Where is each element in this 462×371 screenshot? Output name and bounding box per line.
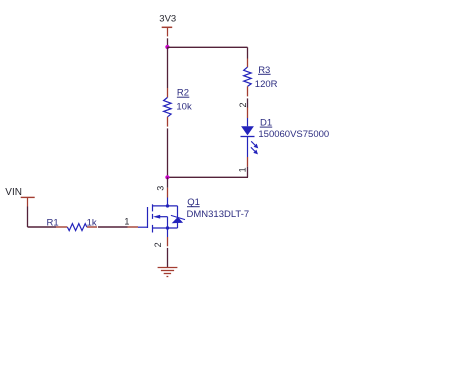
svg-text:3V3: 3V3 [159,14,176,25]
transistor Q1 [138,198,178,238]
svg-text:VIN: VIN [5,187,22,198]
svg-text:150060VS75000: 150060VS75000 [258,129,329,140]
resistor R1 [67,224,87,231]
wire R2 to drain node [167,128,169,177]
power symbol VIN [21,197,35,206]
transistor Q1 body arrow [153,215,160,219]
wire top horizontal [168,46,248,48]
svg-text:DMN313DLT-7: DMN313DLT-7 [187,209,250,220]
wire R3 to D1 [247,98,249,107]
wire VIN vertical [27,207,29,228]
LED D1 emission arrow 2 [251,147,257,153]
resistor R3 pin 1 [247,59,249,68]
power symbol 3V3 [162,27,173,36]
wire R3 branch upper [247,47,249,58]
svg-text:3: 3 [155,186,165,191]
resistor R3 [244,67,252,86]
label Q1 [187,197,200,208]
LED D1 emission arrow 1 [251,141,257,147]
wire drain stub [167,177,169,188]
label R3 [258,65,271,76]
svg-text:2: 2 [238,102,248,107]
svg-text:10k: 10k [176,102,192,113]
wire R2 branch upper [167,47,169,88]
resistor R2 pin 1 [167,88,169,97]
transistor Q1 pin 3 [167,188,169,198]
transistor Q1 pin 1 [128,226,139,228]
transistor Q1 drain dot [166,204,169,207]
svg-text:2: 2 [153,242,163,247]
label D1 [260,118,272,129]
svg-text:1: 1 [124,216,129,226]
ground [158,268,178,277]
wire R1 to gate [98,226,128,228]
resistor R1 pin 1 [56,226,67,228]
junction node 3V3 [165,45,169,49]
transistor Q1 source dot [166,226,169,229]
resistor R2 pin 2 [167,117,169,127]
diode D1 pin 1 lead [247,157,249,167]
label R2 [177,88,189,99]
svg-text:120R: 120R [255,79,278,90]
resistor R2 [164,97,172,116]
wire source to ground [167,248,169,267]
transistor Q1 pin 2 [167,237,169,246]
wire 3V3 stem [167,38,169,47]
resistor R1 pin 2 [87,226,97,228]
LED D1 [241,118,255,157]
transistor Q1 body diode [171,215,185,223]
wire bottom horizontal [168,176,249,178]
resistor R3 pin 2 [247,86,249,96]
wire VIN to R1 [28,226,57,228]
svg-text:1: 1 [238,167,248,172]
wire D1 to bottom corner [247,167,249,178]
diode D1 pin 2 lead [247,108,249,119]
junction node drain [165,175,169,179]
